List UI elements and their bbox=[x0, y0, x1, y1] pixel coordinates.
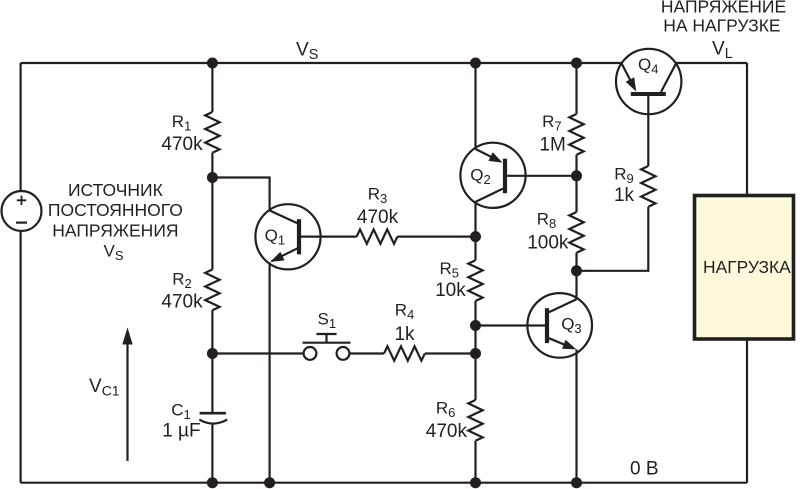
svg-text:ИСТОЧНИК: ИСТОЧНИК bbox=[68, 180, 164, 200]
node R3/R5/Q2c bbox=[470, 231, 481, 242]
wire Q4 base stem bbox=[647, 96, 649, 166]
wire R9 bottom to Q3 collector node bbox=[577, 207, 649, 271]
wire R3 to node B bbox=[397, 236, 475, 238]
node C1/0V bbox=[207, 477, 218, 488]
wire bottom rail 0V bbox=[21, 482, 747, 484]
transistor Q4 (PNP, downward) bbox=[616, 49, 681, 114]
capacitor C1 1uF bbox=[199, 413, 227, 423]
wire Q1 emitter to bottom rail bbox=[269, 262, 271, 482]
wire Q3 emitter to bottom rail bbox=[575, 350, 577, 483]
label R3 bbox=[368, 185, 388, 207]
value R1 470k bbox=[161, 134, 203, 155]
svg-text:470k: 470k bbox=[426, 421, 468, 442]
svg-text:R5: R5 bbox=[439, 259, 459, 281]
svg-text:470k: 470k bbox=[357, 207, 399, 228]
svg-text:C1: C1 bbox=[171, 400, 191, 422]
wire VL right vertical to load bbox=[746, 63, 748, 483]
svg-text:Q2: Q2 bbox=[470, 166, 490, 188]
value R6 470k bbox=[426, 421, 468, 442]
resistor R8 100k bbox=[569, 212, 583, 253]
wire left rail bbox=[20, 63, 22, 483]
node R1/R2/Q1c bbox=[207, 172, 218, 183]
resistor R3 470k bbox=[357, 229, 398, 243]
svg-text:R9: R9 bbox=[614, 165, 634, 187]
switch S1 pushbutton bbox=[303, 334, 351, 360]
node Q3e/0V bbox=[571, 477, 582, 488]
resistor R5 10k bbox=[468, 260, 482, 301]
transistor Q1 (NPN, mirrored) bbox=[255, 204, 320, 269]
label Q1 bbox=[265, 226, 285, 248]
node R5/Q3b bbox=[470, 320, 481, 331]
label R1 bbox=[172, 112, 192, 134]
wire R1-R2-C1 column bbox=[211, 63, 213, 483]
svg-text:100k: 100k bbox=[527, 233, 569, 254]
label S1 bbox=[318, 309, 337, 331]
wire top rail VS bbox=[21, 62, 747, 64]
DC voltage source VS bbox=[2, 191, 42, 231]
label R8 bbox=[537, 210, 557, 232]
value R2 470k bbox=[161, 291, 203, 312]
svg-text:R2: R2 bbox=[172, 269, 192, 291]
svg-text:R6: R6 bbox=[436, 399, 456, 421]
wire Q1 base to R3 bbox=[301, 236, 357, 238]
label R5 bbox=[439, 259, 459, 281]
svg-text:Q4: Q4 bbox=[638, 55, 658, 77]
caption source line 3 bbox=[52, 220, 178, 240]
svg-text:VS: VS bbox=[296, 39, 318, 63]
label NAGRUZKA bbox=[703, 257, 791, 277]
label R4 bbox=[395, 300, 415, 322]
value R9 1k bbox=[614, 185, 635, 206]
svg-text:Q3: Q3 bbox=[561, 314, 581, 336]
wire S1 to R4 bbox=[350, 352, 385, 354]
svg-text:S1: S1 bbox=[318, 309, 337, 331]
svg-text:ПОСТОЯННОГО: ПОСТОЯННОГО bbox=[48, 200, 183, 220]
svg-text:VS: VS bbox=[103, 242, 123, 264]
resistor R6 470k bbox=[468, 400, 482, 441]
node R4/R6 bbox=[470, 348, 481, 359]
svg-text:R1: R1 bbox=[172, 112, 192, 134]
label Q2 bbox=[470, 166, 490, 188]
node Q1e/0V bbox=[264, 477, 275, 488]
caption source line 4 VS bbox=[103, 242, 123, 264]
transistor Q2 (PNP, mirrored) bbox=[460, 143, 525, 208]
label VS (top rail) bbox=[296, 39, 318, 63]
resistor R4 1k bbox=[384, 346, 425, 360]
label VL bbox=[712, 39, 733, 63]
svg-text:R8: R8 bbox=[537, 210, 557, 232]
wire R4 to node E bbox=[425, 352, 476, 354]
svg-text:R4: R4 bbox=[395, 300, 415, 322]
value R8 100k bbox=[527, 233, 569, 254]
svg-text:1k: 1k bbox=[394, 324, 415, 345]
svg-text:VC1: VC1 bbox=[89, 376, 120, 399]
value R3 470k bbox=[357, 207, 399, 228]
svg-text:10k: 10k bbox=[435, 280, 466, 301]
label 0V rail bbox=[630, 459, 659, 480]
svg-text:VL: VL bbox=[712, 39, 733, 63]
resistor R7 1M bbox=[569, 114, 583, 155]
caption line 1: NAPRYAZHENIE bbox=[661, 0, 786, 17]
wire node C to Q3 base bbox=[476, 324, 546, 326]
caption line 2: NA NAGRUZKE bbox=[663, 16, 780, 36]
caption source line 1 bbox=[68, 180, 164, 200]
svg-text:0 В: 0 В bbox=[630, 459, 659, 480]
svg-text:470k: 470k bbox=[161, 134, 203, 155]
label Q3 bbox=[561, 314, 581, 336]
wire Q3 collector bbox=[575, 271, 577, 300]
resistor R9 1k bbox=[641, 166, 655, 207]
svg-text:Q1: Q1 bbox=[265, 226, 285, 248]
wire R7-R8 column bbox=[575, 63, 577, 271]
svg-text:НАПРЯЖЕНИЕ: НАПРЯЖЕНИЕ bbox=[661, 0, 786, 17]
node VS/Q2e bbox=[470, 58, 481, 69]
svg-text:1M: 1M bbox=[539, 134, 565, 155]
svg-text:1k: 1k bbox=[614, 185, 635, 206]
resistor R2 470k bbox=[205, 270, 219, 311]
value R7 1M bbox=[539, 134, 565, 155]
label R7 bbox=[542, 112, 562, 134]
value R5 10k bbox=[435, 280, 466, 301]
label C1 bbox=[171, 400, 191, 422]
svg-text:1 µF: 1 µF bbox=[162, 420, 200, 441]
VC1 measurement arrow bbox=[122, 328, 132, 462]
label R6 bbox=[436, 399, 456, 421]
node R8/Q3c/R9 bbox=[571, 265, 582, 276]
load box NAGRUZKA bbox=[695, 196, 794, 340]
transistor Q3 (NPN) bbox=[527, 293, 592, 358]
caption source line 2 bbox=[48, 200, 183, 220]
svg-text:470k: 470k bbox=[161, 291, 203, 312]
svg-text:НАПРЯЖЕНИЯ: НАПРЯЖЕНИЯ bbox=[52, 220, 178, 240]
node R2/C1/S1 bbox=[207, 348, 218, 359]
wire Q2 collector / R5 / R6 column bbox=[474, 202, 476, 483]
value C1 1uF bbox=[162, 420, 200, 441]
svg-text:R3: R3 bbox=[368, 185, 388, 207]
resistor R1 470k bbox=[205, 112, 219, 153]
node VS/R1 bbox=[207, 58, 218, 69]
svg-text:R7: R7 bbox=[542, 112, 562, 134]
wire Q2 base to R7-R8 node bbox=[507, 175, 576, 177]
wire node A to Q1 collector bbox=[212, 178, 269, 211]
wire node D to switch S1 bbox=[212, 352, 303, 354]
node VS/R7 bbox=[571, 58, 582, 69]
node R6/0V bbox=[470, 477, 481, 488]
label Q4 bbox=[638, 55, 658, 77]
wire Q2 emitter from top rail bbox=[474, 63, 476, 149]
label VC1 bbox=[89, 376, 120, 399]
label R2 bbox=[172, 269, 192, 291]
label R9 bbox=[614, 165, 634, 187]
svg-text:НА НАГРУЗКЕ: НА НАГРУЗКЕ bbox=[663, 16, 780, 36]
value R4 1k bbox=[394, 324, 415, 345]
svg-text:НАГРУЗКА: НАГРУЗКА bbox=[703, 257, 791, 277]
node R7/R8/Q2b bbox=[571, 170, 582, 181]
